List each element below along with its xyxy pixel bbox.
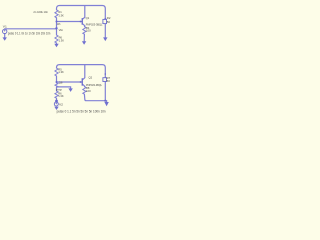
svg-text:1.3K: 1.3K: [58, 13, 63, 17]
svg-text:50: 50: [107, 79, 111, 83]
svg-text:100: 100: [86, 29, 91, 33]
svg-text:1.3K: 1.3K: [58, 94, 63, 98]
svg-text:Q8: Q8: [59, 81, 63, 85]
svg-text:50: 50: [107, 20, 111, 24]
svg-text:V2: V2: [59, 103, 63, 107]
svg-text:Q2: Q2: [89, 75, 93, 79]
svg-text:pulse 0 1.1 5n 5n 5n 5n 5n 100: pulse 0 1.1 5n 5n 5n 5n 5n 100n 10n: [57, 110, 106, 114]
svg-text:V1: V1: [3, 25, 7, 29]
svg-text:W1: W1: [57, 22, 61, 26]
svg-text:100: 100: [86, 89, 91, 93]
svg-text:2n 100k 10n: 2n 100k 10n: [33, 10, 48, 14]
svg-text:1.3K: 1.3K: [59, 39, 64, 43]
svg-text:1.3K: 1.3K: [58, 70, 63, 74]
svg-text:pulse 0 1.1 0n 1n 1n 5n 10n 20: pulse 0 1.1 0n 1n 1n 5n 10n 20n 10n: [8, 32, 50, 36]
svg-text:Vin: Vin: [59, 28, 64, 32]
svg-text:Q1: Q1: [86, 16, 90, 20]
